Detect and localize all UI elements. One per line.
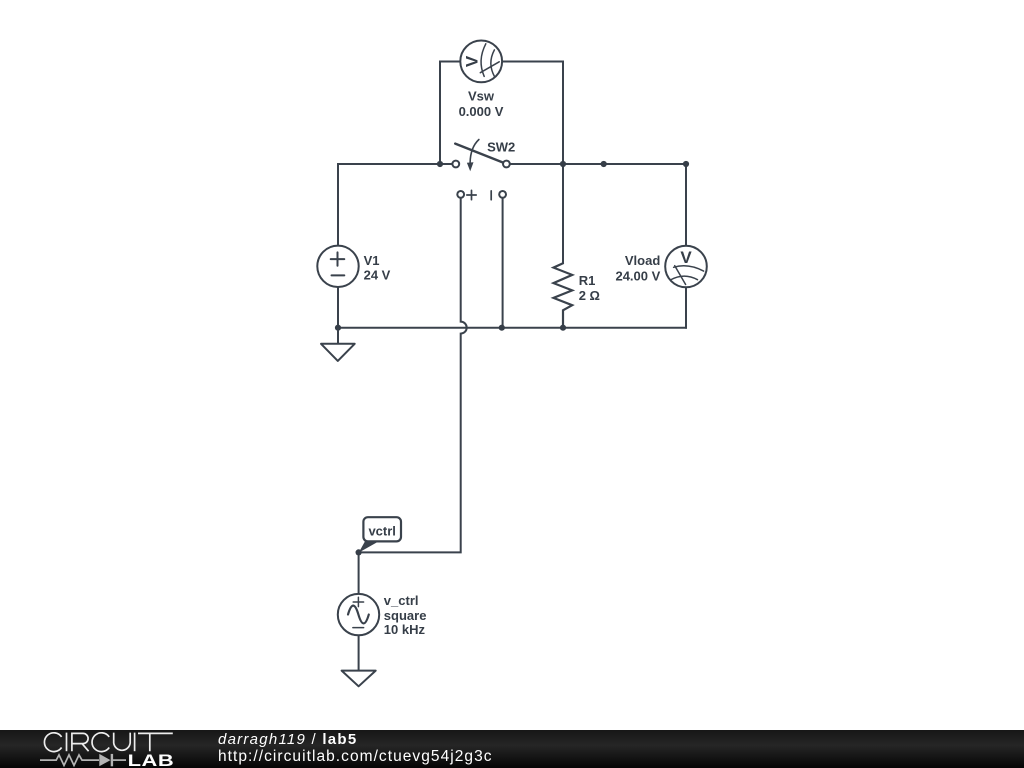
resistor R1 xyxy=(554,263,573,327)
voltmeter Vsw (rotated) xyxy=(460,41,502,83)
svg-text:0.000 V: 0.000 V xyxy=(459,104,504,119)
svg-text:2 Ω: 2 Ω xyxy=(579,288,600,303)
net flag vctrl xyxy=(359,517,401,552)
blade xyxy=(455,144,503,163)
voltage source v_ctrl xyxy=(338,594,379,635)
wire Vsw loop right side xyxy=(502,62,563,165)
voltmeter Vload xyxy=(665,246,707,288)
node minus-control junction xyxy=(499,325,505,331)
wire v_ctrl bottom lead xyxy=(358,635,360,670)
ground (left, under V1) xyxy=(321,328,355,361)
svg-text:LAB: LAB xyxy=(128,751,175,768)
ground (bottom, under v_ctrl) xyxy=(342,671,376,687)
svg-text:v_ctrl: v_ctrl xyxy=(384,593,419,608)
svg-text:V1: V1 xyxy=(364,253,380,268)
node ground-left junction xyxy=(335,325,341,331)
node mid-wire junction xyxy=(601,161,607,167)
node R1 top junction xyxy=(560,161,566,167)
svg-text:Vsw: Vsw xyxy=(468,89,495,104)
svg-text:24 V: 24 V xyxy=(364,268,391,283)
terminal circles xyxy=(452,161,459,168)
node R1 bottom junction xyxy=(560,325,566,331)
svg-text:SW2: SW2 xyxy=(487,140,515,155)
control arrow arc xyxy=(470,140,479,164)
junction dots xyxy=(335,161,689,556)
switch SW2 xyxy=(452,140,509,200)
node vctrl xyxy=(356,549,362,555)
sine wave xyxy=(348,606,369,624)
wire R1 top lead xyxy=(562,164,564,263)
small plus xyxy=(353,597,363,606)
footer bar xyxy=(0,730,1024,768)
wire bottom row xyxy=(338,327,686,329)
svg-text:24.00 V: 24.00 V xyxy=(615,269,660,284)
node Vload top corner xyxy=(683,161,689,167)
svg-text:10 kHz: 10 kHz xyxy=(384,622,426,637)
wire Vsw loop left vertical xyxy=(440,62,460,165)
svg-text:square: square xyxy=(384,608,427,623)
svg-text:R1: R1 xyxy=(579,273,596,288)
wire V1 bottom lead xyxy=(337,287,339,328)
wire switch - control down xyxy=(502,198,504,328)
svg-text:Vload: Vload xyxy=(625,253,660,268)
small minus xyxy=(353,627,364,629)
wire Vload bottom lead xyxy=(685,287,687,328)
control terminals xyxy=(457,191,464,198)
minus bar xyxy=(490,191,492,200)
svg-text:V: V xyxy=(680,248,692,267)
plus sign xyxy=(467,190,476,199)
wire switch + control down with hop over ground wire xyxy=(359,198,467,594)
node switch-left junction xyxy=(437,161,443,167)
wire top row left (V1 top to switch) xyxy=(338,164,452,246)
wire top row right (switch to Vload corner) xyxy=(510,164,686,246)
voltage source V1 xyxy=(317,246,358,287)
svg-text:vctrl: vctrl xyxy=(368,524,395,539)
svg-text:V: V xyxy=(463,55,482,67)
CircuitLab logo xyxy=(40,730,220,768)
